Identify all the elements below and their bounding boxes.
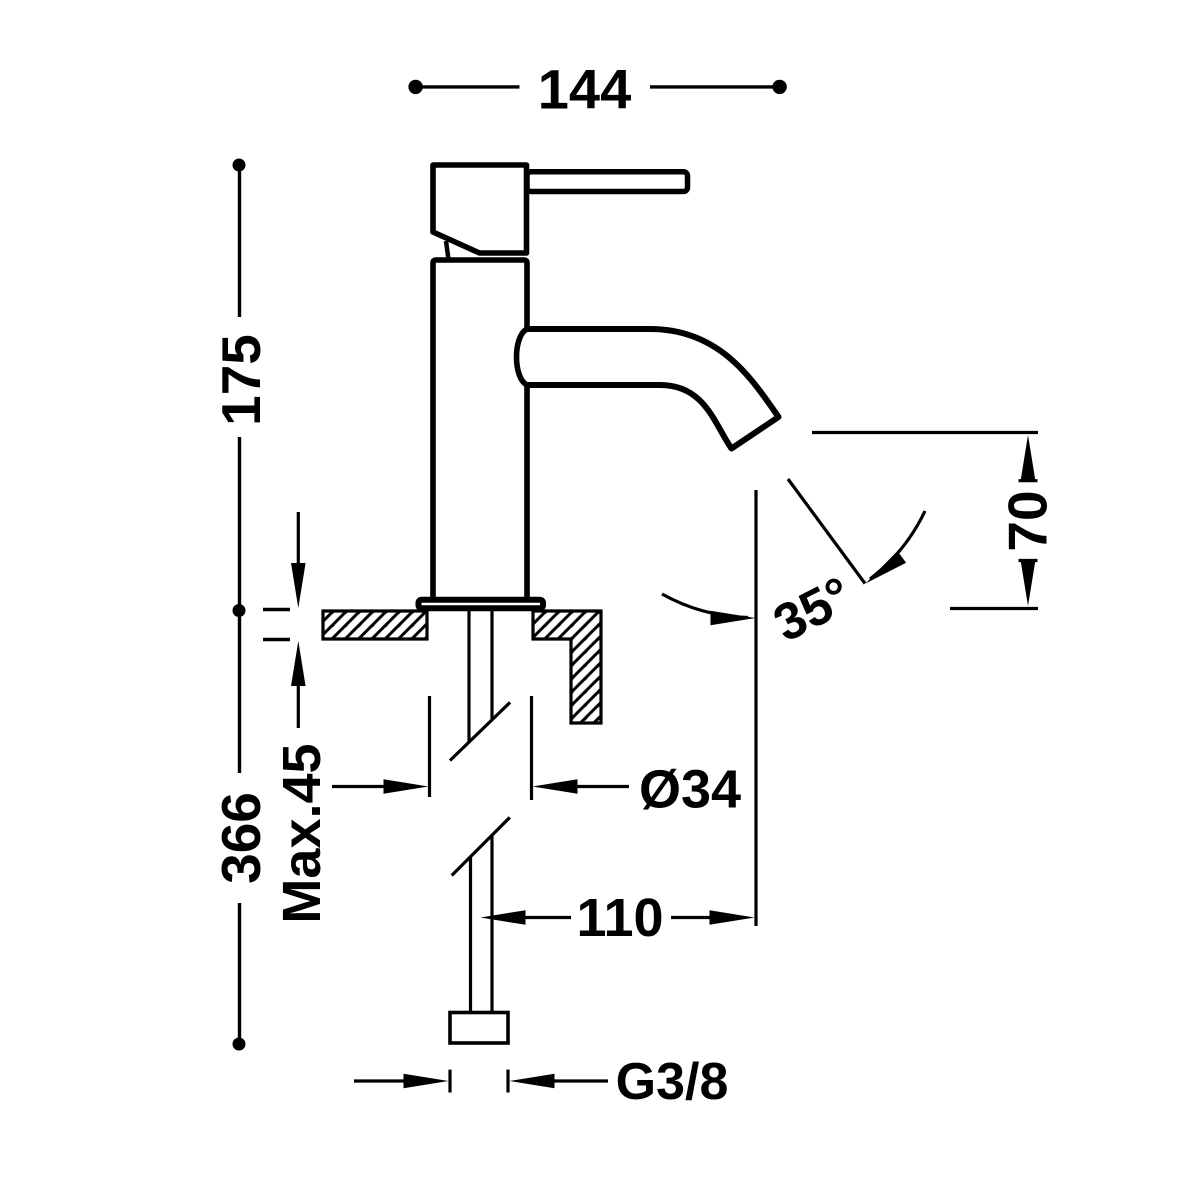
35° arc left arrowhead — [711, 611, 756, 626]
spout tip cut line — [732, 417, 779, 449]
dim 144 left dot — [408, 80, 422, 94]
Ø34 left extension line — [428, 696, 431, 797]
dim 70 upper crossbar — [1019, 479, 1038, 482]
Max.45 up arrowhead — [291, 641, 306, 686]
pipe break line 2 — [452, 817, 510, 875]
svg-text:144: 144 — [538, 57, 631, 120]
dim 110 left arrowhead — [481, 910, 526, 925]
dim 70 bottom reference line — [950, 607, 1038, 610]
Max.45 up arrow shaft — [297, 683, 300, 728]
dim 70 lower crossbar — [1019, 559, 1038, 562]
cartridge edge line — [446, 241, 449, 260]
svg-text:G3/8: G3/8 — [616, 1053, 729, 1111]
dim 110 left shaft — [524, 916, 571, 919]
35° arc right arrowhead — [866, 551, 907, 584]
dim 70 top reference line — [812, 431, 1038, 434]
pipe break line 1 — [450, 702, 510, 760]
dim 366 lower line — [238, 903, 241, 1039]
35° arc left segment — [662, 594, 748, 618]
G3/8 right arrowhead — [510, 1074, 555, 1089]
Max.45 down arrowhead — [291, 563, 306, 608]
svg-text:Ø34: Ø34 — [639, 760, 741, 820]
shank pipe lower left wall — [469, 856, 472, 1013]
35° vertical reference line — [754, 490, 757, 926]
G3/8 left tick — [448, 1070, 451, 1093]
dim 175 lower line — [238, 437, 241, 605]
Ø34 left arrow shaft — [332, 785, 386, 788]
dim 70 up arrowhead — [1021, 435, 1036, 480]
dim 110 right arrowhead — [710, 910, 755, 925]
base flange — [419, 600, 544, 608]
dim 366 bottom dot — [233, 1038, 246, 1051]
Max.45 top tick — [263, 608, 290, 611]
spout inner curve — [526, 385, 732, 449]
shank pipe lower right wall — [490, 836, 493, 1013]
dim 144 right line — [650, 85, 775, 88]
counter left slab — [323, 611, 427, 639]
Ø34 left arrowhead — [384, 779, 429, 794]
water stream line — [788, 479, 865, 584]
Ø34 right arrow shaft — [576, 785, 629, 788]
Max.45 bottom tick — [263, 638, 290, 641]
35° arc right segment — [870, 511, 925, 579]
dim 175/366 shared dot — [233, 604, 246, 617]
svg-text:175: 175 — [210, 334, 272, 426]
Max.45 down arrow shaft — [297, 512, 300, 566]
handle head — [433, 165, 527, 253]
dim 175 upper line — [238, 170, 241, 317]
G3/8 left arrowhead — [404, 1074, 449, 1089]
G3/8 left arrow shaft — [354, 1079, 408, 1082]
counter right L-shaped slab — [533, 611, 601, 723]
G3/8 right tick — [506, 1070, 509, 1093]
svg-text:366: 366 — [210, 792, 272, 884]
Ø34 right arrowhead — [533, 779, 578, 794]
svg-text:110: 110 — [576, 888, 663, 948]
shank pipe upper left wall — [467, 611, 470, 742]
svg-text:Max.45: Max.45 — [272, 743, 332, 923]
dim 144 left line — [421, 85, 520, 88]
handle lever — [527, 172, 688, 192]
spout outer curve — [526, 329, 779, 417]
spout back arc at body — [517, 329, 528, 385]
dim 366 upper line — [238, 616, 241, 773]
G3/8 right arrow shaft — [553, 1079, 608, 1082]
svg-text:70: 70 — [997, 490, 1059, 551]
dim 175 top dot — [233, 159, 246, 172]
supply fitting — [450, 1013, 508, 1044]
faucet body column — [433, 260, 527, 597]
dim 70 down arrowhead — [1021, 561, 1036, 606]
shank pipe upper right wall — [490, 611, 493, 719]
dim 144 right dot — [772, 80, 786, 94]
dim 110 right shaft — [671, 916, 710, 919]
Ø34 right extension line — [530, 696, 533, 800]
